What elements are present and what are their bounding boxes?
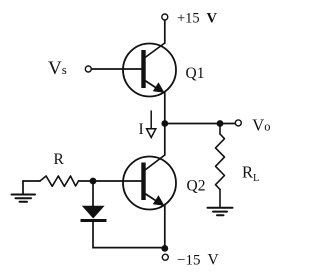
diode D1 [81, 206, 107, 222]
terminal -15V (open circle) [162, 254, 168, 260]
transistor Q2 [123, 155, 176, 210]
resistor R (horizontal zigzag) [40, 176, 79, 186]
wire: Q2 emitter to bottom node [164, 205, 166, 248]
current arrow I (hollow) [147, 111, 156, 138]
wire: Q1 emitter down through node to Q2 collector [164, 92, 166, 155]
ground (left) [12, 181, 36, 202]
svg-text:V: V [207, 11, 218, 27]
wire: resistor R to Q2 base [79, 180, 142, 182]
svg-text:V: V [208, 251, 220, 268]
ground (right, under RL) [208, 208, 233, 215]
svg-text:−15: −15 [177, 252, 200, 268]
wire: node down to diode anode [92, 181, 94, 206]
transistor Q1 [123, 43, 176, 97]
node: RL branch junction [217, 120, 224, 127]
resistor RL (vertical zigzag) [216, 124, 225, 207]
wire: Vs terminal to Q1 base [92, 68, 142, 70]
node: emitter/output junction [161, 120, 168, 127]
wire: left ground to resistor R [23, 180, 40, 182]
svg-text:I: I [139, 121, 144, 138]
terminal Vo (open circle) [235, 120, 241, 126]
svg-text:Vs: Vs [48, 58, 67, 79]
wire: diode cathode down and right to bottom node [93, 222, 165, 248]
wire: node to Vo terminal [165, 123, 235, 125]
wire: top terminal to Q1 collector [164, 20, 166, 43]
terminal +15V (open circle) [162, 14, 168, 20]
svg-text:Q2: Q2 [187, 178, 206, 195]
node: bottom junction [161, 245, 168, 252]
svg-text:Q1: Q1 [186, 65, 205, 82]
svg-text:R: R [54, 151, 65, 168]
svg-text:+15: +15 [177, 11, 200, 27]
terminal Vs input (open circle) [85, 66, 91, 72]
node: R / diode / Q2 base junction [90, 178, 97, 185]
